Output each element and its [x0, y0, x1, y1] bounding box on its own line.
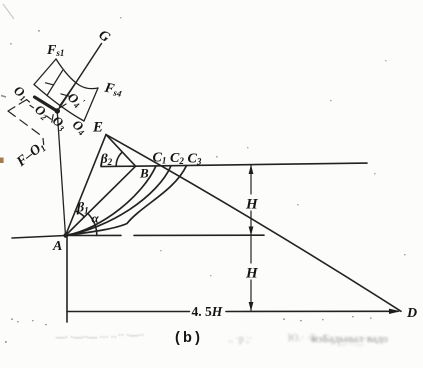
svg-text:C2: C2 — [170, 151, 184, 166]
svg-text:β1: β1 — [76, 201, 89, 216]
trajectory curve to C2 — [66, 166, 172, 236]
svg-text:C1: C1 — [153, 151, 167, 166]
force fan: left edge vector Fs1 — [34, 59, 56, 85]
svg-text:·· ·—··: ·· ·—·· — [118, 330, 144, 340]
arrowhead down at bottom of dimension line — [249, 302, 254, 311]
svg-text:.. ·р ;·: .. ·р ;· — [228, 334, 252, 345]
scattered specks — [10, 17, 406, 276]
node O3 pole dot — [55, 108, 60, 113]
faint bleed-through dashes bottom left — [55, 330, 144, 342]
svg-text:D: D — [406, 306, 417, 321]
svg-text:α: α — [92, 211, 100, 226]
dimension vertical line lower H segment — [250, 236, 252, 263]
dimension vertical line upper H segment — [250, 165, 252, 194]
tick and dash before O2 label — [30, 105, 33, 107]
faint crease top-left corner — [3, 4, 14, 19]
faint bleed-through text band bottom right — [312, 333, 388, 349]
svg-text:H: H — [245, 197, 259, 213]
speck rows near bottom — [5, 316, 372, 343]
svg-text:O3: O3 — [49, 113, 70, 134]
wire: horizontal line through B and C points — [101, 163, 367, 167]
faint bleed-through blobs bottom middle — [228, 333, 316, 345]
dash after O2 label — [47, 116, 51, 119]
svg-text:E: E — [92, 120, 103, 136]
brown speck at left edge — [0, 158, 4, 164]
thick resultant segment O1-O3 — [35, 97, 58, 111]
force fan: tip locus curve — [56, 59, 98, 89]
arrowhead down at middle of dimension line — [249, 227, 254, 236]
angle arc alpha at A — [88, 214, 97, 236]
wire: G line from pole up-right — [57, 44, 101, 112]
dash before O4' label inside fan — [61, 104, 67, 108]
svg-text:G: G — [96, 28, 113, 46]
svg-text:B: B — [139, 166, 149, 181]
svg-text:F–O1: F–O1 — [13, 139, 47, 170]
force fan: internal vector line 1 — [47, 71, 63, 96]
tick after O2 label — [52, 115, 53, 123]
svg-text:β2: β2 — [100, 152, 113, 167]
angle arc beta1 at A — [75, 211, 84, 217]
wire: bottom base line left part — [67, 311, 190, 313]
svg-text:4. 5H: 4. 5H — [192, 304, 223, 319]
force fan: internal dash mark lower — [61, 94, 70, 96]
force fan: baseline O1'..O4' — [34, 85, 84, 122]
svg-text:Fs1: Fs1 — [46, 43, 64, 58]
trajectory curve to C3 — [66, 166, 187, 236]
svg-text:C3: C3 — [188, 152, 202, 167]
svg-text:·· —· ··—: ·· —· ··— — [330, 340, 364, 349]
force fan: internal dash mark upper — [46, 83, 54, 85]
svg-text:O4′: O4′ — [64, 89, 87, 112]
wire: horizontal axis dashed continuation right — [134, 234, 264, 236]
wire: line E to D — [106, 135, 401, 312]
svg-text:(b): (b) — [175, 330, 203, 346]
wire: near-vertical line from O3 pole down to A — [57, 111, 65, 236]
trajectory curve to C1 — [66, 166, 157, 236]
arrowhead up at top of dimension line — [249, 165, 254, 174]
dashed parallelogram left edge — [8, 111, 43, 137]
svg-text:O4: O4 — [69, 117, 90, 138]
wire: horizontal axis line left of A — [12, 236, 66, 239]
wire: line E to B — [106, 135, 136, 167]
svg-text:Fs4: Fs4 — [102, 80, 124, 99]
svg-text:H: H — [245, 266, 259, 282]
wire: horizontal axis line right of A — [66, 234, 122, 236]
arrowhead at D — [389, 309, 401, 314]
dashed parallelogram top edge — [8, 100, 26, 111]
svg-text:A: A — [52, 239, 62, 254]
force fan: internal vector line 2 — [60, 83, 76, 106]
wire: bottom base line right part with arrow to D — [226, 310, 398, 312]
angle arc beta2 at B — [116, 152, 122, 166]
svg-text:—· ·—··— ··· ··: —· ·—··— ··· ·· — [55, 332, 117, 342]
wire: line A to E — [66, 135, 107, 236]
dashed tick below parallelogram corner — [42, 139, 45, 145]
wire: vertical drop below A — [66, 236, 68, 323]
wire: line A to B — [66, 166, 136, 235]
node A — [63, 233, 68, 238]
dash after O1 label — [27, 100, 30, 103]
force fan: right edge vector Fs4 — [84, 88, 98, 121]
small gray mark left edge — [1, 96, 6, 98]
